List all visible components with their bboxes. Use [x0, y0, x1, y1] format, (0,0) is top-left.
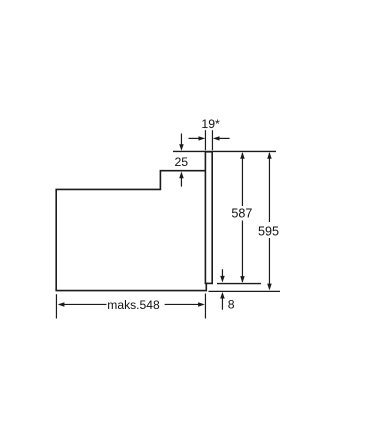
oven front panel (door): [205, 152, 212, 284]
dim maks.548 left extension line: [55, 294, 57, 318]
dim 8 down arrow: [220, 269, 225, 282]
dim 25 up arrow: [179, 172, 184, 187]
dim 595 line: [267, 152, 272, 290]
dim 19* left extension line: [204, 130, 206, 150]
dim 19* right extension line: [211, 130, 213, 150]
niche top extension line: [173, 150, 276, 152]
dim 25 down arrow: [179, 134, 184, 151]
svg-text:maks.548: maks.548: [107, 298, 160, 312]
dim 587 line: [240, 152, 245, 283]
oven body outline: [56, 171, 207, 291]
dim maks.548 right extension line: [204, 294, 206, 319]
dim 19* right arrow: [213, 136, 230, 140]
svg-text:8: 8: [228, 298, 235, 312]
svg-text:25: 25: [174, 155, 188, 169]
svg-text:19*: 19*: [201, 117, 220, 131]
dim 19* left arrow: [189, 136, 206, 140]
dim 8 up arrow: [220, 292, 225, 310]
floor extension line: [209, 290, 281, 292]
door bottom extension line: [217, 283, 261, 285]
svg-text:587: 587: [231, 207, 252, 221]
dim maks.548 line: [58, 302, 205, 307]
svg-text:595: 595: [258, 224, 279, 238]
